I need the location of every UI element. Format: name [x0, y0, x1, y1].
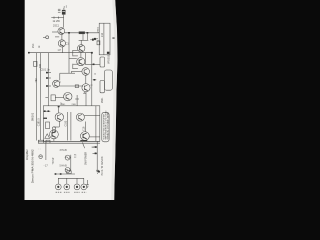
tick y156.8 right: [93, 153, 98, 155]
page background (scanned schematic sheet): [25, 0, 118, 200]
svg-text:C101 1m: C101 1m: [41, 70, 50, 72]
small dark mark bottom right of sheet: [98, 171, 100, 173]
tick y97: [45, 97, 48, 99]
jack J1: [55, 184, 61, 190]
svg-text:VR501B: VR501B: [107, 54, 110, 64]
main bus (long horizontal): [28, 52, 91, 54]
junction dot y64.3: [93, 64, 95, 66]
jack labels bracket 1: [56, 191, 70, 193]
junction dot node B: [68, 32, 70, 34]
resistor R1 (horizontal, top): [51, 17, 63, 19]
transistor Q12 (power): [81, 132, 90, 141]
svg-text:- 17: - 17: [44, 165, 49, 168]
tick y149.8 right: [93, 146, 98, 148]
svg-text:1k 2W: 1k 2W: [53, 19, 61, 23]
ground G3 (near J4): [86, 180, 89, 188]
wire: Q7 emitter drop: [85, 92, 87, 106]
svg-text:SW101: SW101: [31, 112, 35, 121]
transistor Q2: [58, 40, 65, 47]
wire: Q1 collector bus to right: [65, 32, 100, 34]
wire: Q2 emitter to bus: [62, 47, 64, 53]
wire: x45.9 drop: [45, 141, 47, 161]
bracket right of fuses: [70, 155, 72, 172]
svg-text:450: 450: [35, 78, 38, 83]
transistor Q4: [77, 58, 85, 66]
junction dots on bus: [55, 173, 57, 175]
wire: stub y86 left: [46, 85, 51, 87]
junction tick at bus left end: [28, 52, 30, 54]
wire: Q5 base: [71, 71, 82, 73]
wire: x85.6 drop inside box: [85, 122, 87, 132]
svg-text:R501: R501: [101, 97, 104, 103]
wire: Q3 to Q4: [80, 52, 82, 58]
fuse F2: [65, 168, 70, 173]
component R5 box on y86 wire: [75, 85, 78, 88]
input bus y174: [55, 173, 75, 175]
wire: x85.6 drop: [85, 53, 87, 65]
transistor Q11 (power): [50, 130, 59, 139]
svg-text:2SB: 2SB: [72, 104, 77, 106]
terminal block T2: [46, 140, 50, 143]
wire: y79.8 tick right: [93, 79, 97, 81]
svg-text:3 HA B: 3 HA B: [60, 149, 68, 152]
transistor Q1: [58, 28, 65, 35]
wire: Q9 emitter down: [58, 121, 60, 127]
jack J3: [74, 184, 80, 190]
transistor Q8: [64, 92, 72, 100]
capacitor C3: [73, 64, 78, 69]
transistor Q7: [82, 84, 90, 92]
page right-edge shadow: [111, 0, 117, 200]
junction dot bus/right rail: [91, 52, 93, 54]
right column: box B2: [100, 57, 105, 67]
rail X6 (x97.2): [96, 141, 98, 172]
dark dot at B1 bottom: [107, 52, 110, 54]
label above bottom line: [80, 140, 87, 141]
svg-text:OE: OE: [64, 7, 66, 11]
tick y118: [44, 118, 47, 119]
wire: y86 bus from Q6 to Q7: [59, 85, 83, 87]
svg-text:C18: C18: [83, 126, 86, 131]
svg-text:TO SP: TO SP: [53, 157, 55, 164]
svg-text:210: 210: [101, 32, 104, 37]
svg-text:1 P: 1 P: [58, 50, 62, 52]
wire: jack drops: [57, 178, 59, 184]
transistor Q9: [55, 113, 63, 121]
wire: Q1 to Q2: [61, 35, 63, 40]
resistor R4 (box): [51, 95, 55, 101]
small tick right page edge: [112, 38, 114, 39]
wire: link to diode pair: [54, 126, 59, 128]
wire: R4 to Q8: [55, 97, 63, 99]
rail X1 (x36): [35, 53, 37, 141]
resistor R2 (dark, on top bus): [79, 32, 85, 34]
wire: Q11 to bottom rail: [53, 139, 55, 142]
right column: tall box B1: [99, 23, 110, 55]
svg-text:SW POWER: SW POWER: [86, 152, 88, 165]
rail X3 (x69): [68, 33, 70, 73]
wire: stub y78: [46, 77, 51, 79]
wire: y73.2 horizontal: [60, 72, 75, 74]
rail X5 (x95.9): [95, 106, 97, 142]
junction dot node C: [87, 32, 89, 34]
rail X2b (x48.4): [47, 53, 49, 106]
fuse F1: [65, 155, 70, 160]
component cluster left of B1: [92, 38, 100, 45]
power switch S1 (diagonal): [82, 142, 84, 148]
right column: box B3: [104, 70, 112, 90]
wire: horizontal link y40: [79, 39, 89, 41]
wire: drop from top bus at node D: [82, 33, 84, 41]
wire: x77 drop: [76, 95, 78, 106]
jack labels bracket 2: [74, 191, 86, 193]
svg-text:5 HA B: 5 HA B: [60, 165, 68, 168]
wire: top entry into Q9: [58, 106, 60, 113]
jack J4: [81, 184, 87, 190]
rail X4 (x91.8): [91, 53, 93, 106]
tick on Q7 emitter: [83, 92, 86, 94]
wire: y64.3 horizontal: [85, 63, 100, 65]
wire: stub y72.7: [46, 72, 51, 74]
wire: bus stub left of Q1: [52, 31, 58, 33]
svg-text:2SC: 2SC: [33, 43, 35, 48]
diode pair D2: [52, 127, 55, 133]
svg-text:2SC1: 2SC1: [53, 25, 60, 28]
component box above bus: [67, 171, 71, 174]
wire: Q3 top to y40 bus: [80, 40, 82, 44]
divider inside B1: [103, 23, 105, 55]
wire: drop x71.3: [70, 72, 72, 74]
screw E1: [39, 155, 43, 159]
diode D1 cluster: [90, 39, 96, 41]
wire: Q6 base feed: [59, 73, 61, 80]
svg-text:C183: C183: [64, 120, 67, 126]
transistor Q5: [82, 68, 90, 76]
wire: J5 to node A: [63, 15, 65, 28]
svg-text:C181 5: C181 5: [38, 118, 41, 127]
svg-text:PC-5 / W DENON: PC-5 / W DENON: [101, 156, 104, 175]
wire: inner rails x67.7 x70.9: [67, 112, 69, 141]
right column: box B4: [100, 81, 104, 93]
wire: Q12 to right rail: [89, 136, 100, 138]
jack J2: [64, 184, 70, 190]
trimmer VR2 with circle: [43, 36, 49, 39]
junction dot above Q9: [58, 106, 60, 108]
wire: bus inside box y111: [44, 110, 51, 112]
wire: Q4 base from rail: [69, 57, 77, 59]
wire: Q5 to Q7: [85, 75, 87, 83]
ground G2 (right): [96, 170, 99, 173]
capacitor C2: [73, 50, 78, 56]
amplifier block box: [43, 106, 100, 142]
transistor Q6: [53, 80, 60, 87]
resistor R3 (box, left): [34, 61, 37, 66]
svg-text:2SD: 2SD: [61, 104, 66, 106]
tick on x77: [75, 98, 79, 100]
terminal block T1: [38, 140, 44, 143]
connector J5 (speaker terminal, top): [58, 9, 66, 14]
svg-text:SERIAL No 1972 MADE JAPAN: SERIAL No 1972 MADE JAPAN: [106, 112, 109, 139]
svg-text:Denon PMA-350 N-4882: Denon PMA-350 N-4882: [31, 149, 35, 183]
wire: stub into Q2 base: [55, 36, 59, 38]
transistor Q3: [78, 45, 85, 52]
chassis bottom double line: [38, 140, 100, 142]
svg-text:Amplifier: Amplifier: [25, 149, 29, 160]
svg-text:300: 300: [39, 63, 42, 68]
rail X2 (x40.4): [39, 53, 41, 141]
stamp label box (rounded): [102, 112, 109, 142]
wire: Q10 right to rail: [84, 115, 100, 117]
triangle (ground) inside box: [45, 134, 50, 139]
component box inside left: [46, 122, 50, 129]
wire: drop from top bus at node C: [86, 33, 88, 41]
input bus y178.3: [58, 177, 84, 179]
transistor Q10: [76, 113, 84, 121]
